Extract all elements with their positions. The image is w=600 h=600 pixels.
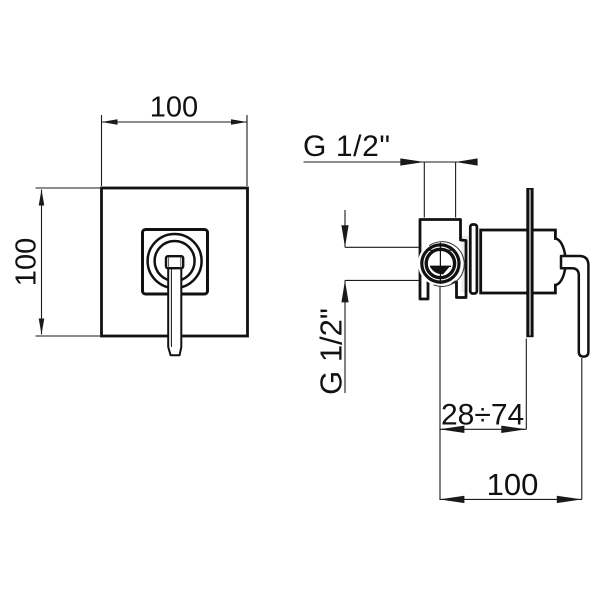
svg-text:100: 100 <box>487 467 539 502</box>
svg-text:G 1/2": G 1/2" <box>314 308 349 395</box>
svg-text:G 1/2": G 1/2" <box>303 130 391 163</box>
svg-text:100: 100 <box>150 92 198 124</box>
svg-text:28÷74: 28÷74 <box>441 399 524 432</box>
svg-text:100: 100 <box>11 238 43 286</box>
